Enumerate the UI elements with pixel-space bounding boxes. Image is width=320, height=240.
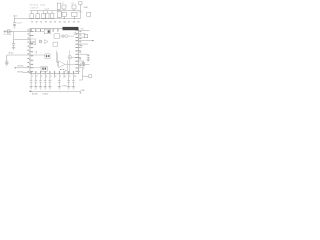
capacitor C21 (30, 74, 33, 87)
svg-text:4: 4 (46, 76, 48, 78)
svg-text:31: 31 (40, 21, 43, 23)
left edge name specks extra (31, 31, 34, 72)
wire INT (79, 43, 88, 45)
interior: osc block B (30, 42, 35, 45)
svg-text:10: 10 (74, 76, 77, 78)
inside pin-name specks top (31, 29, 59, 31)
svg-text:VBAT: VBAT (83, 6, 89, 9)
svg-text:AVDD: AVDD (9, 51, 15, 54)
svg-text:39: 39 (77, 21, 80, 23)
junction dots rail (31, 18, 75, 19)
svg-text:9: 9 (69, 76, 71, 78)
crystal Y1 wire (4, 30, 31, 32)
inside pin-name specks bottom (31, 71, 74, 73)
svg-text:SENSE-: SENSE- (17, 71, 24, 73)
capacitor C9 (62, 12, 66, 16)
capacitor C6 (57, 11, 61, 18)
right pin number specks (79, 31, 81, 66)
capacitor C23 (39, 74, 42, 87)
ground G1 (29, 87, 32, 89)
interior: amp triangle (59, 61, 66, 68)
interior vertical net (66, 61, 68, 74)
wire SDA (79, 40, 94, 42)
right edge name specks (75, 33, 78, 71)
svg-text:34: 34 (54, 21, 57, 23)
capacitor C15 (13, 19, 16, 26)
capacitor C17 (82, 61, 85, 66)
capacitor C11 (87, 12, 91, 16)
wire RXD (79, 33, 86, 35)
wire to L1 (30, 54, 45, 56)
ground G8 (72, 87, 75, 89)
svg-text:3: 3 (41, 76, 43, 78)
capacitor C12 (12, 39, 15, 47)
interior: mixer circle 2 (65, 35, 68, 38)
arrow SENSE+ (14, 67, 16, 68)
capacitor C22 (35, 74, 38, 87)
battery B1 (79, 2, 82, 5)
amp output wire (65, 63, 79, 65)
capacitor C5 (50, 13, 54, 18)
crystal Y1 (7, 30, 10, 33)
ground G6 (58, 87, 61, 89)
wire to L2 (30, 67, 41, 69)
svg-text:38: 38 (73, 21, 76, 23)
interior: summing circle (68, 55, 72, 59)
svg-text:DGND: DGND (42, 94, 48, 96)
capacitor C3 (42, 14, 46, 19)
wire XOUT (14, 31, 30, 39)
capacitor C28 (72, 74, 75, 87)
svg-text:35: 35 (59, 21, 62, 23)
ground G5 (48, 87, 51, 89)
svg-text:0.1uF: 0.1uF (45, 8, 50, 10)
svg-text:32: 32 (45, 21, 48, 23)
ground for C16 (87, 59, 90, 61)
svg-text:3.3V: 3.3V (78, 12, 82, 14)
ground G4 (44, 87, 47, 89)
interior: logic box L2 (41, 66, 47, 71)
capacitor C2 (36, 14, 40, 19)
ground net wire (29, 90, 80, 92)
svg-text:0.1uF 1uF: 0.1uF 1uF (30, 8, 38, 10)
svg-text:8: 8 (65, 76, 67, 78)
svg-text:29: 29 (31, 21, 34, 23)
svg-text:0.1uF: 0.1uF (17, 22, 23, 24)
interior: osc block A (30, 39, 35, 42)
ground G3 (39, 87, 42, 89)
svg-text:C1 C2 C3: C1 C2 C3 (30, 5, 38, 7)
inside pin-name specks left (31, 35, 34, 65)
ground for C17 (82, 66, 85, 68)
wire to REF (30, 30, 44, 32)
capacitor C25 (49, 74, 52, 87)
pin stub right 2 (79, 57, 81, 59)
svg-text:SENSE+: SENSE+ (17, 65, 24, 67)
pin stub bottom 8 (63, 74, 65, 78)
svg-text:GND: GND (81, 90, 86, 92)
svg-text:2: 2 (36, 76, 38, 78)
resistor R1 (84, 35, 88, 38)
right edge pin stubs (79, 47, 81, 71)
inductor L1 box (57, 3, 60, 10)
svg-text:C7: C7 (62, 3, 64, 5)
interior bottom specks (60, 69, 67, 71)
svg-text:32.768kHz: 32.768kHz (3, 34, 11, 36)
wire SENSE- (23, 72, 30, 74)
svg-text:C8: C8 (71, 3, 73, 5)
capacitor C24 (44, 74, 47, 87)
wire VREG (79, 60, 84, 62)
capacitor C10 (72, 12, 77, 16)
interior wires mixers (60, 34, 79, 36)
pin stub right (79, 50, 81, 52)
svg-text:36: 36 (63, 21, 66, 23)
wire VCAP (79, 53, 89, 55)
ground G7 (67, 87, 70, 89)
interior: modulator box (54, 34, 60, 39)
svg-text:AGND: AGND (32, 93, 38, 96)
svg-text:33: 33 (49, 21, 52, 23)
interior: buffer triangle (45, 40, 49, 44)
capacitor C4 (46, 13, 49, 18)
IC U1 body (30, 28, 79, 73)
left edge pin stubs (29, 35, 30, 64)
interior: pad circle (74, 33, 76, 35)
LED D1 (88, 74, 92, 78)
svg-text:5: 5 (51, 76, 53, 78)
U1 part-number label block (63, 27, 79, 30)
left pin number specks (27, 30, 29, 72)
ground for C12 (12, 48, 15, 50)
wire right supply drop (79, 5, 81, 19)
wire LED net (79, 68, 89, 80)
rail VDD (upper top rail) (30, 10, 81, 12)
capacitor C7 (62, 5, 66, 9)
supply arrow at rail start (14, 16, 16, 19)
arrow on ground net (29, 90, 31, 92)
wire TXD (79, 29, 90, 31)
svg-text:7: 7 (60, 76, 62, 78)
svg-text:PGND: PGND (62, 86, 68, 88)
ground G2 (34, 87, 37, 89)
wire SCL (79, 36, 85, 38)
arrow SDA (92, 40, 94, 41)
svg-text:1: 1 (32, 76, 34, 78)
pin stub right CS (79, 46, 82, 48)
interior ground arrow (36, 51, 37, 54)
inside pin-name specks right (75, 30, 78, 68)
capacitor C16 (87, 54, 90, 59)
amp input wires (57, 51, 59, 67)
capacitor C13 (5, 55, 8, 63)
svg-text:6: 6 (55, 76, 57, 78)
capacitor C26 (58, 74, 61, 87)
svg-text:VDD: VDD (13, 15, 18, 17)
pin stub bottom 6 (54, 74, 56, 78)
ground for C15 (13, 26, 16, 28)
interior: control box (53, 42, 58, 46)
summing wires (70, 51, 79, 74)
rail top pin bus (15, 18, 81, 20)
wire VOUT (79, 63, 90, 65)
ground for C13 (5, 64, 8, 66)
capacitor C27 (67, 74, 70, 87)
interior: mixer circle 1 (62, 35, 65, 38)
wire AVDD left (7, 54, 30, 56)
svg-text:C4 C5: C4 C5 (40, 5, 45, 7)
wire SENSE+ (14, 67, 30, 69)
interior: crystal symbol (39, 40, 41, 43)
capacitor C1 (30, 14, 34, 19)
interior: logic box L1 (45, 54, 50, 58)
arrow GND down (80, 91, 82, 93)
svg-text:37: 37 (68, 21, 71, 23)
capacitor C8 (72, 5, 76, 9)
interior: REF block (44, 29, 50, 34)
svg-text:30: 30 (36, 21, 39, 23)
